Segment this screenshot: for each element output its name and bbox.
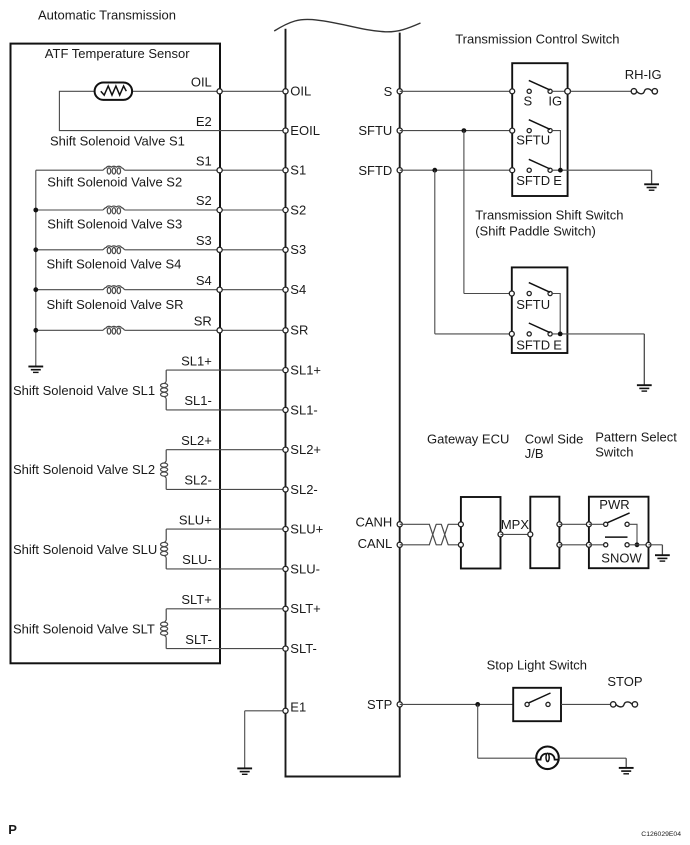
svg-text:SL2-: SL2- <box>290 482 317 497</box>
svg-text:OIL: OIL <box>191 75 212 90</box>
svg-text:STP: STP <box>367 697 392 712</box>
svg-text:IG: IG <box>548 94 562 109</box>
svg-text:SFTU: SFTU <box>358 123 392 138</box>
svg-text:SFTD: SFTD <box>516 337 550 352</box>
svg-text:SLU-: SLU- <box>290 561 320 576</box>
svg-text:SLT-: SLT- <box>290 641 317 656</box>
svg-text:SL2-: SL2- <box>184 473 211 488</box>
svg-text:SNOW: SNOW <box>601 550 642 565</box>
svg-text:PWR: PWR <box>599 497 629 512</box>
svg-text:SR: SR <box>194 314 212 329</box>
svg-text:SFTD: SFTD <box>516 173 550 188</box>
svg-text:Shift Solenoid Valve S3: Shift Solenoid Valve S3 <box>47 216 182 231</box>
svg-text:Shift Solenoid Valve SLT: Shift Solenoid Valve SLT <box>13 622 155 637</box>
svg-text:E1: E1 <box>290 699 306 714</box>
svg-text:SL1-: SL1- <box>184 393 211 408</box>
svg-text:SLU+: SLU+ <box>290 522 323 537</box>
svg-text:SR: SR <box>290 323 308 338</box>
svg-text:P: P <box>8 822 17 837</box>
svg-text:SFTD: SFTD <box>358 163 392 178</box>
svg-text:Stop Light Switch: Stop Light Switch <box>487 657 587 672</box>
svg-text:SL1+: SL1+ <box>181 353 212 368</box>
svg-text:Shift Solenoid Valve S1: Shift Solenoid Valve S1 <box>50 134 185 149</box>
svg-text:S2: S2 <box>290 202 306 217</box>
svg-text:Transmission Control Switch: Transmission Control Switch <box>455 32 619 47</box>
svg-text:SL1-: SL1- <box>290 402 317 417</box>
svg-text:CANH: CANH <box>355 515 392 530</box>
svg-text:S3: S3 <box>196 233 212 248</box>
svg-text:Cowl Side: Cowl Side <box>525 432 584 447</box>
svg-text:Switch: Switch <box>595 445 633 460</box>
svg-text:RH-IG: RH-IG <box>625 67 662 82</box>
svg-text:S: S <box>384 84 393 99</box>
svg-text:SLU-: SLU- <box>182 552 212 567</box>
svg-text:SLT+: SLT+ <box>181 592 211 607</box>
svg-text:E2: E2 <box>196 114 212 129</box>
svg-text:EOIL: EOIL <box>290 123 320 138</box>
svg-text:S4: S4 <box>196 273 212 288</box>
svg-text:SL1+: SL1+ <box>290 363 321 378</box>
svg-text:Shift Solenoid Valve SR: Shift Solenoid Valve SR <box>47 297 184 312</box>
svg-text:C126029E04: C126029E04 <box>641 831 681 838</box>
svg-text:S: S <box>523 94 532 109</box>
svg-text:SLT-: SLT- <box>185 632 212 647</box>
svg-text:S4: S4 <box>290 282 306 297</box>
svg-text:CANL: CANL <box>358 536 393 551</box>
svg-text:SL2+: SL2+ <box>290 442 321 457</box>
svg-text:Transmission Shift Switch: Transmission Shift Switch <box>475 207 623 222</box>
svg-text:SFTU: SFTU <box>516 297 550 312</box>
svg-text:MPX: MPX <box>501 517 530 532</box>
svg-text:Automatic Transmission: Automatic Transmission <box>38 7 176 22</box>
svg-text:E: E <box>553 337 562 352</box>
svg-text:Shift Solenoid Valve S2: Shift Solenoid Valve S2 <box>47 174 182 189</box>
svg-text:S1: S1 <box>290 163 306 178</box>
svg-text:Shift Solenoid Valve S4: Shift Solenoid Valve S4 <box>47 256 182 271</box>
svg-text:S3: S3 <box>290 242 306 257</box>
svg-text:SL2+: SL2+ <box>181 433 212 448</box>
svg-text:SFTU: SFTU <box>516 132 550 147</box>
svg-text:J/B: J/B <box>525 446 544 461</box>
svg-text:S1: S1 <box>196 153 212 168</box>
svg-text:ATF Temperature Sensor: ATF Temperature Sensor <box>45 46 190 61</box>
svg-text:STOP: STOP <box>607 674 642 689</box>
svg-text:S2: S2 <box>196 193 212 208</box>
svg-text:Shift Solenoid Valve SLU: Shift Solenoid Valve SLU <box>13 542 157 557</box>
svg-text:(Shift Paddle Switch): (Shift Paddle Switch) <box>475 224 596 239</box>
svg-text:OIL: OIL <box>290 84 311 99</box>
svg-text:E: E <box>553 173 562 188</box>
svg-text:Shift Solenoid Valve SL1: Shift Solenoid Valve SL1 <box>13 383 155 398</box>
svg-text:Shift Solenoid Valve SL2: Shift Solenoid Valve SL2 <box>13 462 155 477</box>
svg-text:SLU+: SLU+ <box>179 512 212 527</box>
svg-text:Gateway ECU: Gateway ECU <box>427 432 509 447</box>
svg-text:Pattern Select: Pattern Select <box>595 429 677 444</box>
svg-text:SLT+: SLT+ <box>290 601 320 616</box>
